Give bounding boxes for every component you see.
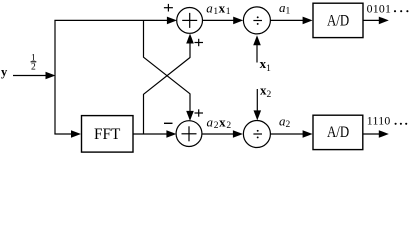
label a2x2 (207, 114, 232, 130)
svg-text:A/D: A/D (327, 13, 349, 30)
wire D1 output to A/D (270, 17, 312, 25)
label 1110... (367, 113, 407, 127)
wire cross B (FFT output to summer U1) (144, 34, 194, 135)
svg-text:2: 2 (31, 63, 36, 73)
svg-text:x1: x1 (260, 56, 272, 74)
svg-text:a1x1: a1x1 (206, 1, 231, 18)
wire A/D top output (363, 17, 389, 25)
label minus at U2 left input (164, 122, 173, 124)
wire x1 input to D1 (253, 35, 261, 62)
block A/D bottom (313, 115, 363, 149)
wire U1 output to divider D1 (202, 17, 243, 25)
svg-text:0101: 0101 (367, 2, 392, 16)
block FFT (82, 116, 134, 153)
label x1 (260, 56, 272, 74)
label 0101... (367, 2, 409, 16)
wire top branch (54, 17, 176, 25)
label x2 (260, 82, 272, 100)
svg-text:a2x2: a2x2 (207, 114, 232, 130)
label a1 (279, 0, 291, 17)
svg-text:a1: a1 (279, 0, 291, 17)
wire A/D bottom output (363, 130, 389, 138)
wire bottom branch to FFT (54, 130, 81, 138)
node y (1, 65, 8, 79)
svg-text:1110: 1110 (367, 113, 391, 127)
divider D2 (243, 121, 270, 148)
svg-text:A/D: A/D (327, 124, 349, 141)
gain 1/2 (31, 54, 36, 73)
label plus top-left (164, 4, 173, 12)
label plus at U1 bottom input (195, 39, 204, 46)
wire FFT output to summer U2 (133, 130, 176, 138)
label a1x1 (206, 1, 231, 18)
wire cross A (top branch to summer U2) (144, 20, 194, 121)
divider D1 (243, 7, 270, 34)
summer U1 (177, 8, 203, 34)
wire bus vertical (54, 20, 56, 134)
label plus at U2 top input (195, 109, 204, 116)
wire U2 output to divider D2 (202, 130, 243, 138)
summer U2 (176, 121, 202, 147)
svg-text:y: y (1, 65, 8, 79)
svg-text:x2: x2 (260, 82, 272, 100)
wire x2 input to D2 (254, 89, 262, 120)
svg-text:a2: a2 (279, 114, 291, 131)
wire input y arrow (13, 72, 56, 80)
svg-text:FFT: FFT (94, 126, 121, 143)
label a2 (279, 114, 291, 131)
wire D2 output to A/D (270, 130, 312, 138)
fraction bar (31, 61, 37, 63)
block A/D top (313, 3, 363, 37)
